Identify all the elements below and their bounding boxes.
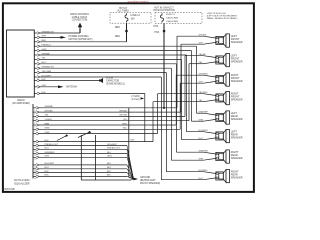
twist arrow A: [57, 135, 67, 140]
junction square PNK: [163, 30, 165, 32]
fuse box F14 dashed: [110, 12, 151, 23]
svg-text:(14 GA): (14 GA): [131, 98, 139, 101]
svg-text:11: 11: [34, 155, 36, 157]
svg-text:SPEAKER: SPEAKER: [231, 118, 243, 121]
svg-text:MOTOR (W/PWR ANT): MOTOR (W/PWR ANT): [69, 38, 93, 41]
speaker SP7 connector and icon: [204, 152, 216, 154]
svg-text:(W/ AMPLIFIER): (W/ AMPLIFIER): [12, 102, 30, 105]
bus to bundle: [129, 177, 134, 179]
svg-text:BLK: BLK: [107, 175, 112, 177]
svg-text:BLU/WHT: BLU/WHT: [199, 130, 209, 132]
svg-text:GRN/WHT: GRN/WHT: [199, 112, 210, 114]
wire RED vertical: [126, 23, 128, 42]
wire W10 to SP8 top: [40, 72, 166, 74]
equalizer ground wires: [39, 145, 127, 147]
svg-text:NOISE: NOISE: [106, 77, 114, 79]
junction dot PNK lower: [163, 107, 165, 109]
radio connector box: [7, 30, 35, 97]
svg-text:RADIO ANTENNA: RADIO ANTENNA: [70, 13, 89, 16]
wire W2 GRY: [40, 36, 60, 38]
svg-text:2: 2: [34, 114, 35, 116]
svg-text:10A (SOME): 10A (SOME): [166, 17, 179, 20]
wire W6 to SP6 top: [40, 54, 186, 56]
svg-text:SPEAKER: SPEAKER: [231, 41, 243, 44]
speaker SP6 connector and icon: [204, 132, 216, 134]
equalizer pin stubs: [33, 107, 36, 109]
svg-text:WHT: WHT: [122, 123, 127, 125]
svg-text:HOT AT: HOT AT: [119, 7, 128, 10]
svg-text:10: 10: [34, 151, 36, 153]
svg-text:SPEAKER: SPEAKER: [231, 80, 243, 83]
equalizer wire R3 to SP2 top: [39, 115, 185, 117]
svg-text:FUSE 14: FUSE 14: [131, 15, 141, 17]
svg-text:CAPACITOR: CAPACITOR: [106, 79, 120, 82]
gauge arrow: [141, 97, 145, 99]
wire W5 to SP5 bottom: [40, 50, 191, 52]
wire W3 RED: [40, 41, 126, 43]
svg-text:8: 8: [34, 143, 35, 145]
svg-text:GRY/BK: GRY/BK: [119, 115, 127, 117]
antenna arrow2: [58, 85, 64, 88]
svg-text:4: 4: [34, 122, 35, 124]
svg-text:PNK: PNK: [154, 26, 159, 28]
svg-text:OR RUN POSITION: OR RUN POSITION: [153, 9, 175, 12]
svg-text:GRN: GRN: [199, 159, 204, 161]
svg-text:CD PLAYER /: CD PLAYER /: [14, 178, 31, 182]
svg-text:GROUND: GROUND: [140, 177, 151, 179]
wire W14 BLK riser: [40, 93, 145, 95]
inner vertical A: [80, 135, 82, 180]
fuse F21 symbol: [161, 13, 164, 22]
border frame: [3, 3, 254, 192]
svg-text:16: 16: [34, 178, 36, 180]
wire W12 BLK noise: [40, 80, 99, 82]
svg-text:SPEAKER: SPEAKER: [231, 177, 243, 180]
antenna cable arrow: [79, 27, 81, 33]
svg-text:(BEHIND LEFT: (BEHIND LEFT: [140, 180, 156, 182]
svg-text:BLU: BLU: [199, 178, 204, 180]
equalizer wire R2 to SP1 bottom: [39, 111, 181, 113]
svg-text:SPEAKER: SPEAKER: [231, 61, 243, 64]
svg-text:SPEAKER: SPEAKER: [231, 99, 243, 102]
radio pin stubs: [34, 32, 37, 34]
speaker SP8 connector and icon: [204, 172, 216, 174]
twist arrow B: [78, 132, 90, 138]
wire W4 to SP5 top: [40, 45, 196, 47]
svg-text:BLK: BLK: [107, 171, 112, 173]
svg-text:FUSE 21: FUSE 21: [166, 14, 176, 16]
svg-text:PNK: PNK: [155, 32, 160, 34]
svg-text:RED: RED: [115, 27, 120, 29]
equalizer wire R8 to SP4 bottom: [39, 141, 153, 143]
wire W11 to SP8 bottom: [40, 76, 161, 78]
svg-text:CABLE (COAX: CABLE (COAX: [72, 16, 88, 19]
svg-text:15A (SOME): 15A (SOME): [166, 20, 179, 23]
svg-text:autodiagnostics: autodiagnostics: [128, 0, 150, 4]
svg-text:15: 15: [34, 174, 36, 176]
svg-text:BLK: BLK: [107, 163, 112, 165]
equalizer wire R6 to SP3 bottom: [39, 128, 180, 130]
svg-text:9: 9: [34, 147, 35, 149]
svg-text:GRN/BK: GRN/BK: [119, 110, 128, 112]
svg-text:14: 14: [34, 170, 36, 172]
fuse box F21 dashed: [155, 12, 202, 23]
wire W9 to SP7 bottom: [40, 67, 171, 69]
svg-text:GRN/RED: GRN/RED: [199, 151, 209, 153]
equalizer wire R7 to SP4 top: [39, 133, 157, 135]
ground arrow: [134, 178, 139, 181]
speaker SP1 connector and icon: [204, 36, 216, 38]
svg-text:LT GRN: LT GRN: [131, 96, 140, 98]
svg-text:SPEAKER: SPEAKER: [231, 137, 243, 140]
svg-text:12: 12: [34, 159, 36, 161]
svg-text:ANTENNA: ANTENNA: [66, 86, 77, 89]
svg-text:BLU: BLU: [123, 128, 128, 130]
svg-text:POWER ANTENNA: POWER ANTENNA: [69, 35, 90, 38]
svg-text:7: 7: [34, 135, 35, 137]
svg-text:BLU: BLU: [107, 167, 112, 169]
svg-text:13: 13: [34, 167, 36, 169]
svg-text:PANEL, BEHIND KICK PANEL): PANEL, BEHIND KICK PANEL): [207, 17, 238, 20]
svg-text:BLK: BLK: [131, 140, 136, 142]
svg-text:FRONT SPEAKER): FRONT SPEAKER): [140, 182, 160, 185]
wire W1 GRN/BK-WT: [40, 32, 80, 34]
svg-text:6: 6: [34, 131, 35, 133]
svg-text:BZ0764B: BZ0764B: [5, 188, 15, 191]
wire W13 GRY antenna: [40, 86, 58, 88]
svg-text:EQUALIZER: EQUALIZER: [14, 181, 29, 185]
speaker SP2 connector and icon: [204, 56, 216, 58]
svg-text:(SOME MODELS): (SOME MODELS): [106, 83, 125, 85]
wire W7 to SP6 bottom: [40, 58, 181, 60]
svg-text:SPEAKER: SPEAKER: [231, 157, 243, 160]
speaker SP3 connector and icon: [204, 75, 216, 77]
fuse F14 symbol: [125, 13, 128, 22]
svg-text:5: 5: [34, 127, 35, 129]
svg-text:RED: RED: [115, 36, 120, 38]
svg-text:CONNECTOR): CONNECTOR): [72, 20, 88, 22]
power antenna arrow: [61, 36, 67, 39]
svg-text:1: 1: [34, 109, 35, 111]
inner vertical B: [95, 135, 97, 180]
equalizer wire R4 to SP2 bottom: [39, 120, 189, 122]
svg-text:GRN: GRN: [199, 120, 204, 122]
svg-text:BLU: BLU: [199, 138, 204, 140]
svg-text:10A: 10A: [131, 17, 136, 20]
junction dot RED: [125, 30, 128, 33]
equalizer wire R1 to SP1 top: [39, 107, 177, 109]
noise speaker icon: [99, 78, 103, 83]
svg-text:BLU/RED: BLU/RED: [199, 170, 209, 172]
speaker SP5 connector and icon: [204, 113, 216, 115]
speaker SP4 connector and icon: [204, 94, 216, 96]
svg-text:3: 3: [34, 118, 35, 120]
wire W8 to SP7 top: [40, 63, 176, 65]
equalizer connector line: [32, 104, 34, 179]
right bus: [128, 108, 130, 177]
equalizer wire R5 to SP3 top: [39, 124, 176, 126]
wire PNK vertical: [163, 23, 165, 107]
